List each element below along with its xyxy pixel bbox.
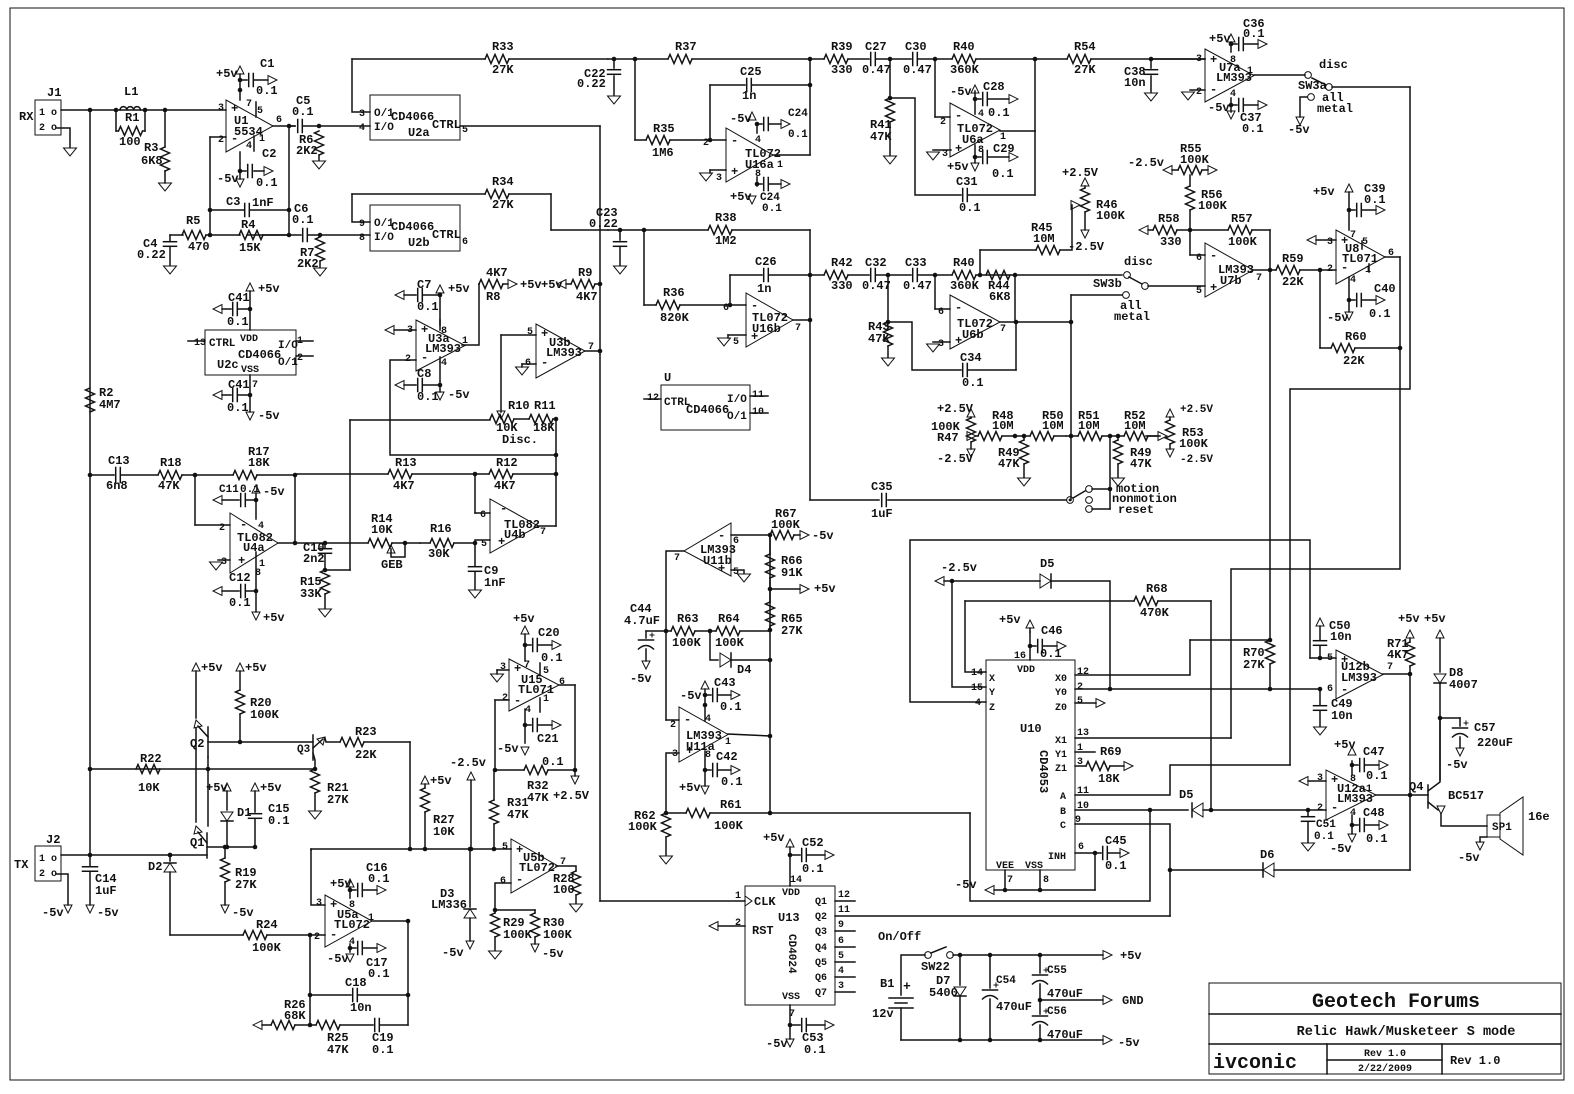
svg-text:+5v: +5v <box>263 611 285 625</box>
svg-text:0.1: 0.1 <box>417 390 439 404</box>
svg-text:6: 6 <box>559 677 565 688</box>
svg-text:0.1: 0.1 <box>992 167 1014 181</box>
svg-text:+: + <box>903 979 911 994</box>
svg-text:Q1: Q1 <box>190 836 204 850</box>
svg-text:-5v: -5v <box>1288 123 1310 137</box>
svg-text:1: 1 <box>543 694 549 705</box>
svg-text:+2.5V: +2.5V <box>1180 404 1213 416</box>
svg-text:R23: R23 <box>355 725 377 739</box>
svg-text:0.1: 0.1 <box>541 651 563 665</box>
svg-text:4M7: 4M7 <box>99 398 121 412</box>
svg-text:5: 5 <box>1362 237 1368 248</box>
svg-text:Relic Hawk/Musketeer S mode: Relic Hawk/Musketeer S mode <box>1297 1025 1516 1040</box>
svg-text:R47: R47 <box>937 431 959 445</box>
svg-text:10n: 10n <box>1330 630 1352 644</box>
svg-text:-: - <box>955 109 962 123</box>
svg-text:6: 6 <box>480 510 486 521</box>
svg-text:Q5: Q5 <box>815 958 827 969</box>
svg-text:0.1: 0.1 <box>1243 27 1265 41</box>
svg-text:Z0: Z0 <box>1055 703 1067 714</box>
svg-text:1uF: 1uF <box>871 507 893 521</box>
svg-text:-5v: -5v <box>258 409 280 423</box>
svg-text:TL072: TL072 <box>334 918 370 932</box>
svg-text:C54: C54 <box>996 975 1016 987</box>
svg-text:0.1: 0.1 <box>1366 832 1388 846</box>
svg-text:R24: R24 <box>256 918 278 932</box>
svg-text:-5v: -5v <box>1330 842 1352 856</box>
svg-text:7: 7 <box>246 99 252 110</box>
svg-text:4: 4 <box>978 109 984 120</box>
svg-text:8: 8 <box>1350 774 1356 785</box>
svg-text:I/O: I/O <box>727 394 747 406</box>
svg-text:360K: 360K <box>950 279 980 293</box>
svg-text:U2a: U2a <box>408 126 430 140</box>
svg-text:I/O: I/O <box>278 340 298 352</box>
svg-text:Y: Y <box>989 688 995 699</box>
svg-text:-: - <box>500 502 507 516</box>
svg-text:0.22: 0.22 <box>577 77 606 91</box>
svg-text:-5v: -5v <box>42 906 64 920</box>
svg-text:-: - <box>231 132 238 146</box>
svg-text:Rev 1.0: Rev 1.0 <box>1450 1054 1500 1068</box>
svg-text:C11: C11 <box>219 484 239 496</box>
svg-text:14: 14 <box>971 668 983 679</box>
svg-text:+5v: +5v <box>1120 949 1142 963</box>
svg-text:C55: C55 <box>1047 965 1067 977</box>
svg-text:+5v: +5v <box>513 612 535 626</box>
svg-text:SW3b: SW3b <box>1093 277 1122 291</box>
svg-text:+: + <box>541 327 548 341</box>
svg-text:INH: INH <box>1048 852 1066 863</box>
svg-text:+2.5V: +2.5V <box>1062 166 1099 180</box>
svg-text:C26: C26 <box>755 255 777 269</box>
svg-text:100K: 100K <box>715 636 745 650</box>
svg-text:R33: R33 <box>492 40 514 54</box>
svg-text:1uF: 1uF <box>95 884 117 898</box>
svg-text:1nF: 1nF <box>484 576 506 590</box>
svg-text:R40: R40 <box>953 40 975 54</box>
svg-text:0.1: 0.1 <box>788 129 808 141</box>
svg-text:CD4053: CD4053 <box>1036 750 1050 793</box>
svg-text:+5v: +5v <box>1209 32 1231 46</box>
svg-text:1: 1 <box>725 737 731 748</box>
svg-text:12v: 12v <box>872 1007 894 1021</box>
svg-text:2: 2 <box>670 720 676 731</box>
svg-text:470uF: 470uF <box>1047 1028 1083 1042</box>
svg-text:0.47: 0.47 <box>903 63 932 77</box>
svg-text:C46: C46 <box>1041 624 1063 638</box>
svg-text:33K: 33K <box>300 587 322 601</box>
svg-text:27K: 27K <box>492 63 514 77</box>
svg-text:+: + <box>955 334 962 348</box>
svg-text:+: + <box>498 535 505 549</box>
svg-text:Q6: Q6 <box>815 973 827 984</box>
svg-text:-5v: -5v <box>766 1037 788 1051</box>
svg-text:R3: R3 <box>144 141 158 155</box>
svg-text:C25: C25 <box>740 65 762 79</box>
svg-text:6: 6 <box>1078 842 1084 853</box>
svg-text:Disc.: Disc. <box>502 433 538 447</box>
svg-text:+: + <box>751 330 758 344</box>
svg-text:8: 8 <box>1043 875 1049 886</box>
svg-text:2: 2 <box>219 523 225 534</box>
svg-text:Geotech Forums: Geotech Forums <box>1312 991 1480 1014</box>
svg-text:3: 3 <box>500 662 506 673</box>
svg-text:+5v: +5v <box>430 774 452 788</box>
svg-text:7: 7 <box>1350 230 1356 241</box>
svg-text:C30: C30 <box>905 40 927 54</box>
svg-text:R38: R38 <box>715 211 737 225</box>
svg-text:-: - <box>1341 683 1348 697</box>
svg-text:-5v: -5v <box>442 946 464 960</box>
svg-text:Y0: Y0 <box>1055 688 1067 699</box>
svg-text:0.1: 0.1 <box>1242 122 1264 136</box>
svg-text:100K: 100K <box>503 928 533 942</box>
svg-text:Q1: Q1 <box>815 897 827 908</box>
svg-text:0.1: 0.1 <box>762 203 782 215</box>
svg-text:100K: 100K <box>1179 437 1209 451</box>
svg-text:7: 7 <box>674 553 680 564</box>
svg-text:O/1: O/1 <box>278 357 298 369</box>
svg-text:R10: R10 <box>508 399 530 413</box>
svg-text:Q2: Q2 <box>815 912 827 923</box>
svg-text:C42: C42 <box>716 750 738 764</box>
svg-text:C48: C48 <box>1363 806 1385 820</box>
svg-text:4: 4 <box>258 521 264 532</box>
svg-text:0.1: 0.1 <box>227 315 249 329</box>
svg-text:5: 5 <box>481 539 487 550</box>
svg-text:R61: R61 <box>720 798 742 812</box>
svg-text:10K: 10K <box>433 825 455 839</box>
svg-text:On/Off: On/Off <box>878 930 921 944</box>
svg-text:+5v: +5v <box>1398 612 1420 626</box>
svg-text:U4b: U4b <box>504 528 526 542</box>
svg-text:100K: 100K <box>771 518 801 532</box>
svg-text:0.1: 0.1 <box>227 401 249 415</box>
svg-text:16e: 16e <box>1528 810 1550 824</box>
svg-text:47K: 47K <box>507 808 529 822</box>
svg-text:6: 6 <box>838 936 844 947</box>
svg-text:0.1: 0.1 <box>372 1043 394 1057</box>
svg-text:0.1: 0.1 <box>229 596 251 610</box>
svg-text:GND: GND <box>1122 994 1144 1008</box>
svg-text:GEB: GEB <box>381 558 403 572</box>
svg-text:470K: 470K <box>1140 606 1170 620</box>
svg-text:100K: 100K <box>672 636 702 650</box>
svg-text:R8: R8 <box>486 290 500 304</box>
svg-text:R4: R4 <box>241 218 255 232</box>
svg-text:+5v: +5v <box>258 282 280 296</box>
svg-text:2: 2 <box>297 353 303 364</box>
svg-text:D5: D5 <box>1040 557 1054 571</box>
svg-text:2: 2 <box>940 117 946 128</box>
svg-text:7: 7 <box>1007 875 1013 886</box>
svg-text:0.1: 0.1 <box>1040 647 1062 661</box>
svg-text:1: 1 <box>368 913 374 924</box>
svg-text:-5v: -5v <box>497 742 519 756</box>
svg-text:4: 4 <box>1350 275 1356 286</box>
svg-text:U2c: U2c <box>217 358 239 372</box>
svg-text:360K: 360K <box>950 63 980 77</box>
svg-text:1 o: 1 o <box>39 854 57 865</box>
svg-text:R36: R36 <box>663 286 685 300</box>
svg-text:-5v: -5v <box>542 947 564 961</box>
svg-text:U2b: U2b <box>408 236 430 250</box>
svg-text:metal: metal <box>1114 310 1150 324</box>
svg-text:7: 7 <box>252 380 258 391</box>
svg-text:+: + <box>686 744 693 758</box>
svg-text:91K: 91K <box>781 566 803 580</box>
svg-text:10n: 10n <box>350 1001 372 1015</box>
svg-text:-: - <box>240 518 247 532</box>
svg-text:0.1: 0.1 <box>962 376 984 390</box>
svg-text:-2.5V: -2.5V <box>937 452 974 466</box>
svg-text:C52: C52 <box>802 836 824 850</box>
svg-text:U: U <box>664 371 671 385</box>
svg-text:VDD: VDD <box>240 334 258 345</box>
svg-text:1: 1 <box>1366 784 1372 795</box>
svg-text:30K: 30K <box>428 547 450 561</box>
svg-text:C41: C41 <box>228 378 250 392</box>
svg-text:100K: 100K <box>1198 199 1228 213</box>
svg-text:4: 4 <box>838 966 844 977</box>
svg-text:47K: 47K <box>998 457 1020 471</box>
svg-text:CD4066: CD4066 <box>238 348 281 362</box>
svg-text:1n: 1n <box>757 282 771 296</box>
svg-text:10M: 10M <box>1078 419 1100 433</box>
svg-text:C12: C12 <box>229 571 251 585</box>
svg-text:+5v: +5v <box>245 661 267 675</box>
svg-text:-2.5v: -2.5v <box>941 561 977 575</box>
svg-text:5: 5 <box>733 567 739 578</box>
svg-text:C31: C31 <box>956 175 978 189</box>
svg-text:10M: 10M <box>1042 419 1064 433</box>
svg-text:0.47: 0.47 <box>903 279 932 293</box>
svg-text:6: 6 <box>500 876 506 887</box>
svg-text:-: - <box>731 134 738 148</box>
svg-text:2: 2 <box>314 932 320 943</box>
svg-text:4: 4 <box>441 358 447 369</box>
svg-text:100K: 100K <box>628 820 658 834</box>
svg-text:+5v: +5v <box>947 160 969 174</box>
svg-text:3: 3 <box>672 749 678 760</box>
svg-text:7: 7 <box>1256 273 1262 284</box>
svg-text:R1: R1 <box>125 111 139 125</box>
svg-text:5: 5 <box>733 337 739 348</box>
svg-text:0.1: 0.1 <box>959 201 981 215</box>
svg-text:-5v: -5v <box>630 672 652 686</box>
svg-text:-: - <box>514 694 521 708</box>
svg-text:R13: R13 <box>395 456 417 470</box>
svg-text:TL072: TL072 <box>519 861 555 875</box>
svg-text:C18: C18 <box>345 976 367 990</box>
svg-text:R22: R22 <box>140 752 162 766</box>
svg-text:0.1: 0.1 <box>1105 859 1127 873</box>
svg-text:C32: C32 <box>865 256 887 270</box>
svg-text:R12: R12 <box>496 456 518 470</box>
svg-text:-: - <box>1331 801 1338 815</box>
svg-text:-5v: -5v <box>327 952 349 966</box>
svg-text:7: 7 <box>795 323 801 334</box>
svg-text:10n: 10n <box>1331 709 1353 723</box>
svg-text:+5v: +5v <box>1334 738 1356 752</box>
svg-text:-2.5v: -2.5v <box>450 756 486 770</box>
svg-text:VDD: VDD <box>1017 665 1035 676</box>
svg-text:2K2: 2K2 <box>296 144 318 158</box>
svg-text:0.1: 0.1 <box>1366 769 1388 783</box>
svg-text:2n2: 2n2 <box>303 552 325 566</box>
svg-text:Q4: Q4 <box>815 943 827 954</box>
svg-text:6: 6 <box>276 115 282 126</box>
svg-text:5: 5 <box>1196 286 1202 297</box>
svg-text:X0: X0 <box>1055 674 1067 685</box>
svg-text:5: 5 <box>1077 696 1083 707</box>
svg-text:47K: 47K <box>868 332 890 346</box>
svg-text:R63: R63 <box>677 612 699 626</box>
svg-text:CD4066: CD4066 <box>686 403 729 417</box>
svg-text:8: 8 <box>255 568 261 579</box>
svg-text:-: - <box>541 356 548 370</box>
svg-text:+5v: +5v <box>260 781 282 795</box>
svg-text:R69: R69 <box>1100 745 1122 759</box>
svg-text:-2.5v: -2.5v <box>1128 156 1164 170</box>
svg-text:C7: C7 <box>417 278 431 292</box>
svg-text:0.1: 0.1 <box>1314 831 1334 843</box>
svg-text:Q4: Q4 <box>1409 780 1423 794</box>
svg-text:LM393: LM393 <box>546 346 582 360</box>
svg-text:VSS: VSS <box>782 992 800 1003</box>
svg-text:C20: C20 <box>538 626 560 640</box>
svg-text:0.1: 0.1 <box>368 872 390 886</box>
svg-text:47K: 47K <box>527 791 549 805</box>
svg-text:-5v: -5v <box>955 878 977 892</box>
svg-text:0.1: 0.1 <box>417 300 439 314</box>
svg-text:1M6: 1M6 <box>652 146 674 160</box>
svg-text:O/1: O/1 <box>727 411 747 423</box>
svg-text:disc: disc <box>1124 255 1153 269</box>
svg-text:C41: C41 <box>228 291 250 305</box>
svg-text:R58: R58 <box>1158 212 1180 226</box>
svg-text:Q3: Q3 <box>815 927 827 938</box>
svg-text:11: 11 <box>838 905 850 916</box>
svg-text:-5v: -5v <box>680 689 702 703</box>
svg-text:metal: metal <box>1317 102 1353 116</box>
svg-text:B1: B1 <box>880 977 894 991</box>
svg-text:4007: 4007 <box>1449 678 1478 692</box>
svg-text:1M2: 1M2 <box>715 234 737 248</box>
svg-text:4: 4 <box>525 705 531 716</box>
svg-text:-5v: -5v <box>1446 758 1468 772</box>
svg-text:10M: 10M <box>1124 419 1146 433</box>
svg-text:4K7: 4K7 <box>393 479 415 493</box>
svg-text:1n: 1n <box>742 89 756 103</box>
svg-text:4: 4 <box>359 123 365 134</box>
svg-text:47K: 47K <box>1130 457 1152 471</box>
svg-text:-: - <box>421 351 428 365</box>
svg-text:100K: 100K <box>252 941 282 955</box>
svg-text:3: 3 <box>716 173 722 184</box>
svg-text:U7b: U7b <box>1220 274 1242 288</box>
svg-text:U13: U13 <box>778 911 800 925</box>
svg-text:Z: Z <box>989 703 995 714</box>
svg-text:12: 12 <box>1077 667 1089 678</box>
svg-text:+5v: +5v <box>999 613 1021 627</box>
svg-text:-5v: -5v <box>448 388 470 402</box>
svg-text:D4: D4 <box>737 663 751 677</box>
svg-text:Q2: Q2 <box>190 737 204 751</box>
svg-text:27K: 27K <box>1074 63 1096 77</box>
svg-text:0.1: 0.1 <box>240 484 260 496</box>
svg-text:+5v: +5v <box>1313 185 1335 199</box>
svg-text:-5v: -5v <box>1327 311 1349 325</box>
svg-text:C21: C21 <box>537 732 559 746</box>
svg-text:47K: 47K <box>158 479 180 493</box>
svg-text:-2.5V: -2.5V <box>1068 240 1105 254</box>
svg-text:X: X <box>989 674 995 685</box>
svg-text:+: + <box>238 554 245 568</box>
svg-text:R39: R39 <box>831 40 853 54</box>
svg-text:-5v: -5v <box>812 529 834 543</box>
svg-text:R9: R9 <box>578 266 592 280</box>
svg-text:6: 6 <box>723 303 729 314</box>
svg-text:R40: R40 <box>953 256 975 270</box>
svg-text:R18: R18 <box>160 456 182 470</box>
svg-text:6: 6 <box>1196 253 1202 264</box>
svg-text:+: + <box>1210 281 1217 295</box>
svg-text:0.47: 0.47 <box>862 279 891 293</box>
svg-text:+5v: +5v <box>448 282 470 296</box>
svg-text:C43: C43 <box>714 676 736 690</box>
svg-text:R5: R5 <box>186 214 200 228</box>
svg-text:C35: C35 <box>871 480 893 494</box>
svg-text:Z1: Z1 <box>1055 764 1067 775</box>
svg-text:-5v: -5v <box>950 85 972 99</box>
svg-text:0.1: 0.1 <box>292 213 314 227</box>
svg-text:1: 1 <box>259 134 265 145</box>
svg-text:2: 2 <box>1077 682 1083 693</box>
svg-text:220uF: 220uF <box>1477 736 1513 750</box>
svg-text:0.22: 0.22 <box>137 248 166 262</box>
svg-text:4K7: 4K7 <box>494 479 516 493</box>
svg-text:-5v: -5v <box>263 485 285 499</box>
svg-text:470uF: 470uF <box>996 1000 1032 1014</box>
svg-text:3: 3 <box>316 898 322 909</box>
svg-text:D2: D2 <box>148 860 162 874</box>
svg-text:-: - <box>684 713 691 727</box>
svg-text:R64: R64 <box>718 612 740 626</box>
svg-text:2: 2 <box>1196 87 1202 98</box>
svg-text:5: 5 <box>257 106 263 117</box>
svg-text:100K: 100K <box>1228 235 1258 249</box>
svg-text:27K: 27K <box>781 624 803 638</box>
svg-text:C24: C24 <box>788 108 808 120</box>
svg-text:10K: 10K <box>138 781 160 795</box>
svg-text:TX: TX <box>14 858 29 872</box>
svg-text:R57: R57 <box>1231 212 1253 226</box>
svg-text:0.47: 0.47 <box>862 63 891 77</box>
svg-text:+5v: +5v <box>814 582 836 596</box>
svg-text:8: 8 <box>349 900 355 911</box>
svg-text:22K: 22K <box>1343 354 1365 368</box>
svg-text:100: 100 <box>553 883 575 897</box>
svg-text:22K: 22K <box>1282 275 1304 289</box>
svg-text:100K: 100K <box>543 928 573 942</box>
svg-text:2: 2 <box>1327 264 1333 275</box>
svg-text:13: 13 <box>194 338 206 349</box>
svg-text:27K: 27K <box>235 878 257 892</box>
svg-text:CTRL: CTRL <box>432 228 461 242</box>
svg-text:18K: 18K <box>533 421 555 435</box>
